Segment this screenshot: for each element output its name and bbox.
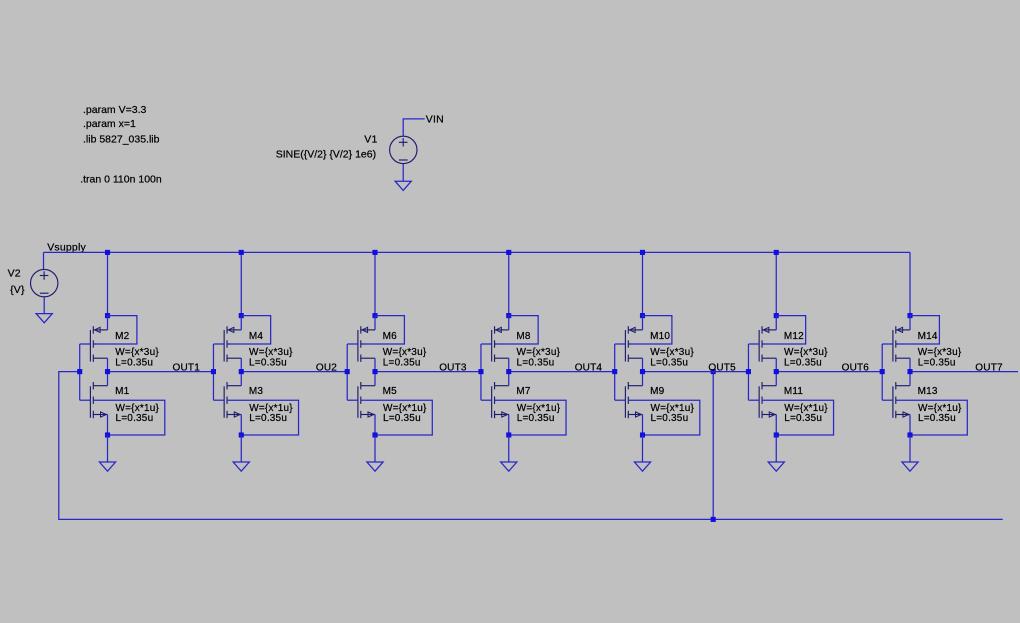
- label M11: [784, 386, 804, 397]
- label Vsupply: [47, 241, 86, 253]
- svg-text:M5: M5: [383, 386, 398, 397]
- ground cell 1: [99, 462, 115, 471]
- transistor M5 (NMOS): [358, 372, 375, 435]
- svg-text:M9: M9: [650, 386, 665, 397]
- wire bulk loop M4: [227, 316, 271, 344]
- svg-text:L=0.35u: L=0.35u: [784, 413, 822, 424]
- svg-text:.param V=3.3: .param V=3.3: [83, 104, 146, 116]
- node VIN label: [426, 113, 444, 125]
- junction M8 source node: [506, 313, 511, 318]
- label M5: [383, 386, 398, 397]
- wire OUT7 net: [910, 371, 1018, 373]
- junction M1 source node: [105, 432, 110, 437]
- transistor M1 (NMOS): [90, 372, 107, 435]
- svg-text:L=0.35u: L=0.35u: [784, 357, 822, 368]
- value {V}: [10, 284, 25, 296]
- ground cell 6: [768, 462, 784, 471]
- junction input node cell 2: [211, 369, 216, 374]
- svg-text:SINE({V/2} {V/2} 1e6): SINE({V/2} {V/2} 1e6): [276, 148, 376, 160]
- svg-text:OUT5: OUT5: [708, 362, 736, 373]
- transistor M2 (PMOS): [90, 316, 107, 372]
- svg-text:M1: M1: [115, 386, 130, 397]
- wire supply drop cell 7: [909, 252, 911, 315]
- wire bulk loop M3: [227, 400, 298, 435]
- wire bulk loop M2: [93, 316, 137, 344]
- value W of M8: [517, 347, 561, 358]
- transistor M8 (PMOS): [492, 316, 509, 372]
- wire bulk loop M7: [495, 400, 567, 435]
- node label OUT5: [708, 362, 736, 373]
- label M1: [115, 386, 130, 397]
- transistor M9 (NMOS): [625, 372, 642, 435]
- wire bulk loop M14: [896, 316, 940, 344]
- wire M7 source to ground: [508, 435, 510, 462]
- value L of M2: [115, 357, 153, 368]
- transistor M4 (PMOS): [224, 316, 241, 372]
- junction output node cell 7: [907, 369, 912, 374]
- label V1: [364, 133, 377, 145]
- wire bulk loop M12: [762, 316, 806, 344]
- svg-text:L=0.35u: L=0.35u: [383, 357, 421, 368]
- wire gate bus cell 7: [882, 344, 893, 400]
- junction OUT5 tap top: [711, 369, 716, 374]
- svg-text:L=0.35u: L=0.35u: [650, 357, 688, 368]
- svg-text:OUT6: OUT6: [842, 362, 870, 373]
- junction output node cell 2: [239, 369, 244, 374]
- wire supply drop cell 3: [374, 252, 376, 315]
- wire V1 top to VIN: [403, 119, 425, 136]
- label M3: [249, 386, 264, 397]
- junction M10 source node: [640, 313, 645, 318]
- wire OUT6 net: [776, 371, 882, 373]
- svg-text:L=0.35u: L=0.35u: [517, 413, 555, 424]
- label M13: [918, 386, 938, 397]
- ground cell 2: [233, 462, 249, 471]
- junction input node cell 4: [478, 369, 483, 374]
- label M12: [784, 331, 804, 342]
- label M8: [516, 331, 531, 342]
- wire M1 source to ground: [107, 435, 109, 462]
- wire M11 source to ground: [775, 435, 777, 462]
- svg-text:M14: M14: [918, 331, 938, 342]
- value W of M9: [651, 403, 695, 414]
- directive .lib 5827_035.lib: [83, 134, 160, 146]
- svg-text:L=0.35u: L=0.35u: [918, 413, 956, 424]
- wire M9 source to ground: [642, 435, 644, 462]
- directive .tran 0 110n 100n: [80, 174, 162, 186]
- junction rail cell 4: [506, 250, 511, 255]
- value W of M7: [517, 403, 561, 414]
- value L of M13: [918, 413, 956, 424]
- wire M3 source to ground: [240, 435, 242, 462]
- value L of M3: [249, 413, 287, 424]
- wire OUT1 net: [108, 371, 214, 373]
- wire gate bus cell 5: [615, 344, 626, 400]
- junction output node cell 3: [372, 369, 377, 374]
- junction output node cell 6: [774, 369, 779, 374]
- label M2: [115, 331, 130, 342]
- junction rail cell 5: [640, 250, 645, 255]
- voltage source V2: [31, 269, 58, 296]
- svg-text:L=0.35u: L=0.35u: [249, 357, 287, 368]
- transistor M13 (NMOS): [893, 372, 910, 435]
- transistor M3 (NMOS): [224, 372, 241, 435]
- wire feedback OUT5 to input (left/bottom): [59, 372, 1003, 520]
- wire OUT5 net: [643, 371, 749, 373]
- wire bulk loop M10: [628, 316, 672, 344]
- junction M12 source node: [774, 313, 779, 318]
- wire gate bus cell 6: [748, 344, 759, 400]
- wire bulk loop M5: [361, 400, 433, 435]
- junction M2 source node: [105, 313, 110, 318]
- junction M13 source node: [907, 432, 912, 437]
- wire bulk loop M6: [361, 316, 405, 344]
- label M6: [383, 331, 398, 342]
- junction rail cell 6: [774, 250, 779, 255]
- value L of M10: [650, 357, 688, 368]
- label V2: [8, 267, 21, 279]
- svg-text:L=0.35u: L=0.35u: [517, 357, 555, 368]
- value L of M9: [651, 413, 689, 424]
- wire bulk loop M8: [495, 316, 539, 344]
- svg-text:L=0.35u: L=0.35u: [249, 413, 287, 424]
- value L of M4: [249, 357, 287, 368]
- junction feedback bottom: [711, 517, 716, 522]
- svg-text:.tran 0 110n 100n: .tran 0 110n 100n: [80, 174, 162, 186]
- wire M5 source to ground: [374, 435, 376, 462]
- label M7: [516, 386, 531, 397]
- directive .param x=1: [83, 118, 136, 130]
- junction input node cell 5: [612, 369, 617, 374]
- svg-text:M4: M4: [249, 331, 264, 342]
- value W of M10: [650, 347, 694, 358]
- directive .param V=3.3: [83, 104, 146, 116]
- svg-text:Vsupply: Vsupply: [47, 241, 86, 253]
- wire V2 to ground: [43, 297, 45, 314]
- value L of M14: [918, 357, 956, 368]
- node label OUT6: [842, 362, 870, 373]
- value W of M13: [918, 403, 962, 414]
- wire M13 source to ground: [909, 435, 911, 462]
- junction M14 source node: [907, 313, 912, 318]
- value W of M2: [115, 347, 159, 358]
- transistor M7 (NMOS): [492, 372, 509, 435]
- svg-text:{V}: {V}: [10, 284, 25, 296]
- junction rail cell 3: [372, 250, 377, 255]
- junction output node cell 4: [506, 369, 511, 374]
- node label OUT4: [575, 362, 603, 373]
- value L of M5: [383, 413, 421, 424]
- value W of M14: [918, 347, 962, 358]
- value L of M11: [784, 413, 822, 424]
- label M14: [918, 331, 938, 342]
- transistor M6 (PMOS): [358, 316, 375, 372]
- wire supply drop cell 6: [775, 252, 777, 315]
- wire OUT2 net: [241, 371, 347, 373]
- svg-text:OUT4: OUT4: [575, 362, 603, 373]
- wire bulk loop M11: [762, 400, 834, 435]
- value L of M1: [116, 413, 154, 424]
- svg-text:.lib 5827_035.lib: .lib 5827_035.lib: [83, 134, 160, 146]
- svg-text:VIN: VIN: [426, 113, 444, 125]
- wire OUT5 tap down: [712, 372, 714, 520]
- svg-text:.param x=1: .param x=1: [83, 118, 136, 130]
- wire supply drop cell 2: [240, 252, 242, 315]
- wire Vsupply rail: [44, 251, 911, 253]
- value W of M12: [784, 347, 828, 358]
- junction input node cell 7: [880, 369, 885, 374]
- svg-text:OUT7: OUT7: [975, 362, 1003, 373]
- junction input node cell 6: [746, 369, 751, 374]
- ground V2: [36, 314, 52, 323]
- value L of M12: [784, 357, 822, 368]
- junction M7 source node: [506, 432, 511, 437]
- node label OUT1: [173, 362, 201, 373]
- wire gate bus cell 1: [80, 344, 91, 400]
- svg-text:OU2: OU2: [316, 362, 337, 373]
- ground cell 3: [367, 462, 383, 471]
- svg-text:M11: M11: [784, 386, 804, 397]
- wire gate bus cell 3: [347, 344, 358, 400]
- svg-text:V1: V1: [364, 133, 377, 145]
- node label OUT3: [439, 362, 467, 373]
- ground cell 4: [501, 462, 517, 471]
- junction M6 source node: [372, 313, 377, 318]
- wire V1 to ground: [402, 164, 404, 181]
- value L of M8: [517, 357, 555, 368]
- svg-text:M13: M13: [918, 386, 938, 397]
- wire bulk loop M13: [896, 400, 968, 435]
- svg-text:L=0.35u: L=0.35u: [383, 413, 421, 424]
- value L of M6: [383, 357, 421, 368]
- voltage source V1: [390, 136, 417, 163]
- wire bulk loop M9: [628, 400, 700, 435]
- node label OU2: [316, 362, 337, 373]
- ground V1: [395, 181, 411, 190]
- junction M5 source node: [372, 432, 377, 437]
- junction input node cell 1: [77, 369, 82, 374]
- wire OUT4 net: [509, 371, 615, 373]
- transistor M12 (PMOS): [759, 316, 776, 372]
- transistor M14 (PMOS): [893, 316, 910, 372]
- junction M11 source node: [774, 432, 779, 437]
- value W of M11: [784, 403, 828, 414]
- junction input node cell 3: [345, 369, 350, 374]
- svg-text:M12: M12: [784, 331, 804, 342]
- wire gate bus cell 4: [481, 344, 492, 400]
- wire gate bus cell 2: [213, 344, 224, 400]
- junction M3 source node: [239, 432, 244, 437]
- svg-text:M2: M2: [115, 331, 130, 342]
- junction output node cell 1: [105, 369, 110, 374]
- svg-text:OUT1: OUT1: [173, 362, 201, 373]
- svg-text:L=0.35u: L=0.35u: [116, 413, 154, 424]
- svg-text:OUT3: OUT3: [439, 362, 467, 373]
- label M4: [249, 331, 264, 342]
- junction rail cell 1: [105, 250, 110, 255]
- value SINE({V/2} {V/2} 1e6): [276, 148, 376, 160]
- ground cell 7: [902, 462, 918, 471]
- node label OUT7: [975, 362, 1003, 373]
- wire supply drop cell 5: [642, 252, 644, 315]
- wire OUT3 net: [375, 371, 481, 373]
- svg-text:M6: M6: [383, 331, 398, 342]
- value W of M3: [249, 403, 293, 414]
- svg-text:L=0.35u: L=0.35u: [115, 357, 153, 368]
- svg-text:V2: V2: [8, 267, 21, 279]
- label M9: [650, 386, 665, 397]
- value W of M4: [249, 347, 293, 358]
- junction output node cell 5: [640, 369, 645, 374]
- wire supply drop cell 1: [107, 252, 109, 315]
- junction rail cell 2: [239, 250, 244, 255]
- junction M4 source node: [239, 313, 244, 318]
- value W of M6: [383, 347, 427, 358]
- transistor M11 (NMOS): [759, 372, 776, 435]
- ground cell 5: [634, 462, 650, 471]
- svg-text:M10: M10: [650, 331, 670, 342]
- label M10: [650, 331, 670, 342]
- svg-text:M3: M3: [249, 386, 264, 397]
- svg-text:M8: M8: [516, 331, 531, 342]
- wire bulk loop M1: [93, 400, 165, 435]
- value L of M7: [517, 413, 555, 424]
- junction M9 source node: [640, 432, 645, 437]
- wire supply drop cell 4: [508, 252, 510, 315]
- transistor M10 (PMOS): [625, 316, 642, 372]
- svg-text:L=0.35u: L=0.35u: [651, 413, 689, 424]
- wire V2 to rail: [43, 252, 45, 269]
- svg-text:L=0.35u: L=0.35u: [918, 357, 956, 368]
- value W of M5: [383, 403, 427, 414]
- svg-text:M7: M7: [516, 386, 531, 397]
- value W of M1: [116, 403, 160, 414]
